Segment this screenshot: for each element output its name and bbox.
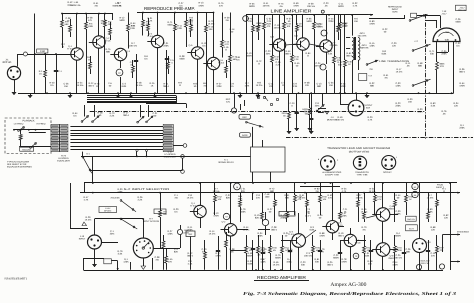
label K1 signal relay xyxy=(218,158,234,164)
svg-text:R-25: R-25 xyxy=(150,82,156,85)
switch S1 transfer xyxy=(82,152,92,174)
arrow sheet2 a xyxy=(421,192,460,194)
pot rec level xyxy=(170,225,191,249)
svg-text:3.3K: 3.3K xyxy=(328,53,333,56)
transistor Q11 xyxy=(221,221,237,237)
resistor R44 monitor xyxy=(302,93,312,130)
contact stubs on eq rail xyxy=(136,149,148,156)
resistor R1 1.5M box xyxy=(37,49,48,53)
transistor Q3 xyxy=(110,48,130,60)
svg-text:120K: 120K xyxy=(395,85,401,88)
box small bias xyxy=(411,13,417,17)
svg-text:XLR: XLR xyxy=(366,107,371,110)
transistor Q12 xyxy=(288,231,306,248)
svg-text:4.7K: 4.7K xyxy=(84,199,89,202)
svg-text:120K: 120K xyxy=(123,261,129,264)
resistor R-39 line-amp xyxy=(339,15,348,93)
svg-text:5600: 5600 xyxy=(167,24,173,27)
svg-text:360-4: 360-4 xyxy=(163,85,170,88)
svg-text:R-32: R-32 xyxy=(353,2,359,5)
svg-text:R-45: R-45 xyxy=(168,258,174,261)
box W-27 xyxy=(406,225,418,231)
svg-text:4%: 4% xyxy=(384,77,387,80)
extra record capacitor columns xyxy=(251,240,430,270)
resistor col 226 xyxy=(225,232,228,270)
svg-text:12K: 12K xyxy=(248,20,253,23)
svg-text:220K: 220K xyxy=(163,45,169,48)
resistor R-55 record xyxy=(257,235,266,270)
svg-text:R-10: R-10 xyxy=(255,214,261,217)
svg-text:S-2 INPUT SELECTOR: S-2 INPUT SELECTOR xyxy=(124,188,170,191)
svg-text:R-19: R-19 xyxy=(202,42,208,45)
capacitor mid2 xyxy=(304,93,313,133)
capacitor C5 xyxy=(165,50,175,93)
wires inside playback box xyxy=(13,127,51,149)
svg-text:L-84: L-84 xyxy=(74,1,79,4)
resistor R-62 record xyxy=(363,235,372,270)
svg-text:C-25: C-25 xyxy=(396,254,402,257)
record mid rails xyxy=(231,187,340,251)
svg-text:6.8K: 6.8K xyxy=(122,85,127,88)
wire line-amp couplings xyxy=(286,44,320,46)
svg-text:C-33: C-33 xyxy=(396,82,402,85)
svg-text:C-23: C-23 xyxy=(324,2,330,5)
svg-text:C-31: C-31 xyxy=(153,112,159,115)
wire record verticals xyxy=(201,183,451,270)
svg-text:600R: 600R xyxy=(246,55,252,58)
svg-text:C-15: C-15 xyxy=(275,24,281,27)
svg-text:4.7K: 4.7K xyxy=(117,4,122,7)
arrow lower right xyxy=(450,260,460,262)
svg-text:R-26: R-26 xyxy=(138,196,144,199)
svg-text:TYPE TI-88: TYPE TI-88 xyxy=(356,173,368,176)
wire line-amp emitters xyxy=(280,50,327,93)
resistor R-38 line-amp xyxy=(333,15,342,93)
svg-text:5600: 5600 xyxy=(119,19,125,22)
svg-text:R-47: R-47 xyxy=(84,196,90,199)
svg-text:10K: 10K xyxy=(286,25,290,28)
svg-text:LO FREQ: LO FREQ xyxy=(14,123,24,126)
svg-text:120K: 120K xyxy=(167,233,173,236)
svg-text:600R 5%: 600R 5% xyxy=(360,47,369,50)
svg-text:R-78: R-78 xyxy=(342,258,348,261)
resistor right of S2 xyxy=(162,235,165,270)
svg-text:600R: 600R xyxy=(333,257,339,260)
svg-text:1M 5%: 1M 5% xyxy=(273,27,280,30)
resistor R-52 record xyxy=(214,183,223,215)
svg-text:12K: 12K xyxy=(431,229,436,232)
resistor R-16 with wire xyxy=(229,13,238,94)
wire bottom-left hook xyxy=(84,258,119,270)
transistor Q14 xyxy=(340,234,361,246)
svg-text:82K: 82K xyxy=(241,190,246,193)
testpoint record 3 xyxy=(416,264,421,269)
svg-text:R-51: R-51 xyxy=(384,74,390,77)
testpoint circle 3 xyxy=(320,64,326,70)
svg-text:R-75: R-75 xyxy=(279,3,285,6)
svg-text:45T4: 45T4 xyxy=(362,44,368,47)
svg-text:600R: 600R xyxy=(249,5,255,8)
box BP-OSC xyxy=(99,207,117,213)
svg-text:SIGNAL RELAY: SIGNAL RELAY xyxy=(218,161,234,164)
svg-text:600R: 600R xyxy=(395,235,401,238)
box REC xyxy=(239,115,250,120)
svg-text:120K: 120K xyxy=(257,235,263,238)
svg-text:3.3K: 3.3K xyxy=(431,105,436,108)
box top right xyxy=(456,5,467,10)
svg-text:LINE AMPLIFIER: LINE AMPLIFIER xyxy=(271,9,312,14)
svg-text:R-25: R-25 xyxy=(328,261,334,264)
svg-text:R-40: R-40 xyxy=(347,61,353,64)
svg-text:27K: 27K xyxy=(168,261,173,264)
svg-text:120K: 120K xyxy=(216,85,222,88)
resistor R-15 with wire xyxy=(221,13,230,58)
svg-text:5600: 5600 xyxy=(306,20,312,23)
svg-text:47R: 47R xyxy=(440,65,444,68)
svg-text:12K: 12K xyxy=(392,45,397,48)
svg-text:R-24: R-24 xyxy=(78,82,84,85)
svg-text:43K: 43K xyxy=(108,23,112,26)
testpoint small circle line-amp xyxy=(243,16,249,22)
svg-text:33K: 33K xyxy=(209,28,213,31)
extra line-amp resistor columns xyxy=(257,15,340,40)
svg-text:W-27: W-27 xyxy=(409,227,415,230)
svg-text:360-4: 360-4 xyxy=(338,235,345,238)
svg-text:100K: 100K xyxy=(340,85,346,88)
svg-text:R-22: R-22 xyxy=(383,28,389,31)
jack J4 monitor xyxy=(318,109,338,122)
svg-text:600R: 600R xyxy=(275,257,281,260)
svg-text:R-72: R-72 xyxy=(257,60,263,63)
svg-text:SEE SHEET 5 FOR: SEE SHEET 5 FOR xyxy=(7,163,27,166)
svg-text:SOCKET: SOCKET xyxy=(383,171,392,174)
svg-text:MIC: MIC xyxy=(189,233,193,236)
svg-text:R-13: R-13 xyxy=(199,2,205,5)
svg-text:C-11: C-11 xyxy=(269,83,274,86)
svg-text:12.4 V: 12.4 V xyxy=(305,215,312,218)
svg-text:C-35: C-35 xyxy=(442,50,448,53)
svg-text:5600: 5600 xyxy=(455,21,461,24)
resistor col 205 xyxy=(204,240,207,270)
svg-text:-3dB: -3dB xyxy=(444,39,449,42)
svg-text:2.2K: 2.2K xyxy=(294,58,299,61)
svg-text:R-71: R-71 xyxy=(164,83,170,86)
svg-text:12K: 12K xyxy=(454,105,459,108)
svg-text:R-11: R-11 xyxy=(406,62,411,65)
label preamp mid row xyxy=(230,28,241,62)
resistor R-9 with wire xyxy=(142,13,151,36)
svg-text:R-44: R-44 xyxy=(244,226,250,229)
svg-text:R-45: R-45 xyxy=(295,62,301,65)
wire dashed vertical xyxy=(425,14,427,140)
svg-text:R-79: R-79 xyxy=(241,208,247,211)
wire harness bundle B xyxy=(70,127,163,150)
resistor R-12 with wire xyxy=(185,13,194,48)
svg-text:J-417: J-417 xyxy=(441,13,447,16)
switch J4 area xyxy=(316,93,324,112)
resistor R-33 line-amp xyxy=(283,15,292,93)
svg-text:R-49: R-49 xyxy=(338,116,344,119)
testpoint circle record top-left xyxy=(234,183,241,190)
transistor Q4 xyxy=(147,33,164,48)
wire rep cal drop xyxy=(241,100,245,110)
svg-text:360-4: 360-4 xyxy=(285,53,292,56)
wire right verticals xyxy=(437,42,454,94)
dashed box playback equalizer xyxy=(5,118,51,154)
svg-text:R-11: R-11 xyxy=(177,25,182,28)
svg-text:(BOTTOM VIEW): (BOTTOM VIEW) xyxy=(349,150,370,153)
svg-text:2.2K: 2.2K xyxy=(138,199,143,202)
svg-text:TI-4.5: TI-4.5 xyxy=(288,233,294,236)
svg-text:2.2K: 2.2K xyxy=(110,115,115,118)
svg-text:R-75: R-75 xyxy=(95,83,101,86)
svg-text:4.7K: 4.7K xyxy=(245,85,250,88)
resistor R-34 line-amp xyxy=(291,15,300,93)
wire line-amp top bus xyxy=(246,14,368,16)
svg-text:PLAYBACK: PLAYBACK xyxy=(23,119,35,122)
resistor R-57 record xyxy=(281,235,290,270)
resistor R-8 with wire xyxy=(127,13,136,49)
resistor R45 xyxy=(436,52,446,93)
socket diagram circle 3 xyxy=(382,156,397,170)
connector J1 rep head xyxy=(3,59,21,80)
svg-text:1K 5%: 1K 5% xyxy=(77,84,84,87)
svg-text:120K: 120K xyxy=(369,45,375,48)
svg-text:82K: 82K xyxy=(255,217,260,220)
svg-text:20%: 20% xyxy=(266,53,271,56)
transistor Q2 xyxy=(89,36,111,48)
svg-text:R-68: R-68 xyxy=(257,22,263,25)
svg-text:R-19: R-19 xyxy=(339,232,345,235)
svg-text:1K 2%: 1K 2% xyxy=(243,229,250,232)
label socket diagram xyxy=(327,147,390,154)
svg-text:C-26: C-26 xyxy=(276,61,282,64)
svg-text:2.2K: 2.2K xyxy=(267,20,272,23)
svg-text:1K 5%: 1K 5% xyxy=(427,197,434,200)
svg-text:33K: 33K xyxy=(315,261,320,264)
svg-text:6.8K: 6.8K xyxy=(382,53,387,56)
svg-text:R-46: R-46 xyxy=(274,261,280,264)
svg-text:1M 5%: 1M 5% xyxy=(212,190,219,193)
svg-text:R-74: R-74 xyxy=(248,18,254,21)
svg-text:C-28: C-28 xyxy=(272,226,278,229)
svg-text:R-71: R-71 xyxy=(430,50,436,53)
wire ground bus arrow xyxy=(449,92,454,94)
svg-text:HI-SPEED: HI-SPEED xyxy=(58,157,69,160)
transistor Q16 xyxy=(372,243,395,260)
svg-text:R-45: R-45 xyxy=(318,214,324,217)
svg-text:C-26: C-26 xyxy=(64,83,70,86)
note for notes see sheet 3 xyxy=(5,277,28,280)
svg-text:REPRODUCE: REPRODUCE xyxy=(388,6,403,9)
svg-text:1K 5%: 1K 5% xyxy=(85,219,92,222)
testpoint tiny top xyxy=(321,10,324,13)
svg-text:470R: 470R xyxy=(319,235,325,238)
svg-text:100K: 100K xyxy=(417,111,423,114)
svg-text:R-62: R-62 xyxy=(444,214,450,217)
svg-text:82K: 82K xyxy=(174,251,179,254)
switch contacts K1 upper xyxy=(256,93,279,106)
svg-text:R-60: R-60 xyxy=(370,20,376,23)
label socket 3 xyxy=(383,171,392,174)
label from sheet 2 xyxy=(436,184,445,189)
wire dashed rail right xyxy=(286,137,473,139)
svg-text:EXCEPT TI-88: EXCEPT TI-88 xyxy=(325,173,340,176)
svg-text:R-30: R-30 xyxy=(118,188,124,191)
svg-text:C-38: C-38 xyxy=(230,248,236,251)
connector J10 input xyxy=(79,235,102,249)
svg-text:45T4: 45T4 xyxy=(360,32,366,35)
svg-text:R-21: R-21 xyxy=(370,188,376,191)
svg-text:R-30: R-30 xyxy=(418,108,424,111)
switch input arm2 xyxy=(120,218,137,229)
resistor R-64 record xyxy=(394,235,403,270)
wire record bottom bus xyxy=(84,269,444,271)
svg-text:C-20: C-20 xyxy=(392,42,398,45)
wire input area xyxy=(70,183,168,248)
svg-text:100K: 100K xyxy=(100,22,106,25)
svg-text:3.3K: 3.3K xyxy=(118,253,123,256)
svg-text:R-68: R-68 xyxy=(320,232,326,235)
svg-text:33K: 33K xyxy=(301,264,306,267)
cap col 218 xyxy=(216,236,220,270)
svg-text:R-13: R-13 xyxy=(214,212,220,215)
svg-text:R-36: R-36 xyxy=(460,68,466,71)
svg-text:C-11: C-11 xyxy=(339,3,344,6)
svg-text:Ampex AG-300: Ampex AG-300 xyxy=(330,282,366,288)
wire vertical x35 xyxy=(34,14,36,94)
resistor R-40 line-amp xyxy=(344,15,353,93)
box 4.5uB xyxy=(279,212,295,217)
testpoint circle 2 xyxy=(321,30,327,36)
terminals from sheet2 xyxy=(412,183,418,197)
svg-text:C-26: C-26 xyxy=(456,18,462,21)
wire vertical x45 xyxy=(44,53,46,93)
svg-text:12K: 12K xyxy=(274,58,278,61)
label meter top xyxy=(441,10,447,16)
svg-text:R-27: R-27 xyxy=(357,194,363,197)
svg-text:R-71: R-71 xyxy=(168,21,174,24)
terminal block right (C-47 wafer) xyxy=(163,124,173,151)
svg-text:R-52: R-52 xyxy=(328,194,334,197)
relay K1 box xyxy=(251,147,286,172)
svg-text:TI-4.8: TI-4.8 xyxy=(355,242,361,245)
svg-text:500K 4%: 500K 4% xyxy=(72,4,81,7)
svg-text:2N1305: 2N1305 xyxy=(330,44,338,47)
arrow marker record left xyxy=(82,222,87,226)
svg-text:R-64: R-64 xyxy=(306,52,312,55)
svg-text:R-68: R-68 xyxy=(431,226,437,229)
svg-text:1K 2%: 1K 2% xyxy=(209,233,216,236)
svg-text:82K: 82K xyxy=(226,197,231,200)
svg-text:C-22: C-22 xyxy=(334,254,340,257)
svg-text:Fig. 7-3 Schematic Diagram: Fig. 7-3 Schematic Diagram, Record/Repro… xyxy=(243,291,457,296)
svg-text:12K: 12K xyxy=(444,217,449,220)
arrow erase bias xyxy=(443,231,470,253)
svg-text:R-20: R-20 xyxy=(368,116,374,119)
svg-text:C-18: C-18 xyxy=(230,28,236,31)
svg-text:R-12: R-12 xyxy=(338,61,344,64)
svg-text:C-20: C-20 xyxy=(290,102,296,105)
svg-text:TRANSISTOR LEAD AND SOCKET: TRANSISTOR LEAD AND SOCKET DIAGRAM xyxy=(327,147,390,150)
svg-text:REP: REP xyxy=(226,98,231,101)
svg-text:100K: 100K xyxy=(286,261,292,264)
transistor Q9 xyxy=(316,40,338,52)
svg-text:R-48: R-48 xyxy=(98,112,104,115)
svg-text:R-29: R-29 xyxy=(86,216,92,219)
svg-text:R-11: R-11 xyxy=(188,226,193,229)
svg-text:R-23: R-23 xyxy=(396,102,402,105)
svg-text:FOR NOTES SEE SHEET 3: FOR NOTES SEE SHEET 3 xyxy=(5,277,28,280)
svg-text:R-17: R-17 xyxy=(397,68,403,71)
label preamp top row xyxy=(72,1,122,25)
svg-text:4.7K: 4.7K xyxy=(131,25,136,28)
svg-text:R-34: R-34 xyxy=(258,232,264,235)
svg-text:C-14: C-14 xyxy=(393,261,399,264)
svg-text:100K: 100K xyxy=(240,211,246,214)
wire record rail 2 xyxy=(80,192,450,194)
wire meter feed xyxy=(369,15,441,28)
box mic xfer xyxy=(154,209,166,214)
svg-text:27K: 27K xyxy=(431,255,436,258)
meter pins xyxy=(425,21,456,41)
wire eq rail 1 xyxy=(81,156,251,158)
svg-text:R-42: R-42 xyxy=(68,1,74,4)
svg-text:1M 5%: 1M 5% xyxy=(355,197,362,200)
svg-text:R-10: R-10 xyxy=(247,52,253,55)
svg-text:C-30: C-30 xyxy=(396,210,402,213)
svg-text:470R: 470R xyxy=(198,4,204,7)
svg-text:360-4: 360-4 xyxy=(346,55,353,58)
svg-text:R-61: R-61 xyxy=(347,52,353,55)
svg-text:VU: VU xyxy=(445,31,449,34)
svg-text:R-32: R-32 xyxy=(274,56,280,59)
svg-text:20%: 20% xyxy=(110,233,115,236)
svg-text:R-32: R-32 xyxy=(370,82,376,85)
wire record couplers xyxy=(237,215,398,250)
resistor R-59 record xyxy=(312,235,321,270)
testpoint record 2 xyxy=(439,264,444,269)
resistor R-30 line-amp xyxy=(252,15,261,93)
svg-text:1K 5%: 1K 5% xyxy=(136,84,143,87)
svg-text:4.7K: 4.7K xyxy=(353,4,358,7)
wire J1 to preamp xyxy=(12,54,71,95)
svg-text:4.7K: 4.7K xyxy=(368,119,373,122)
svg-text:R-58: R-58 xyxy=(418,62,424,65)
svg-text:1K 5%: 1K 5% xyxy=(299,197,306,200)
svg-text:4%: 4% xyxy=(273,249,276,252)
switch S5 line termination xyxy=(412,40,430,51)
svg-text:1M 5%: 1M 5% xyxy=(314,65,321,68)
caption Fig 7-3 xyxy=(243,291,457,296)
svg-text:12K: 12K xyxy=(305,84,310,87)
svg-text:3.3K: 3.3K xyxy=(293,85,298,88)
svg-text:TYPICAL EQUALIZER: TYPICAL EQUALIZER xyxy=(7,161,29,164)
svg-text:4.7K: 4.7K xyxy=(377,198,382,201)
svg-text:ACCESS: ACCESS xyxy=(111,196,121,199)
label bias adj xyxy=(421,260,431,265)
svg-text:R-15: R-15 xyxy=(224,41,230,44)
svg-text:68K: 68K xyxy=(65,23,69,26)
svg-text:R-75: R-75 xyxy=(219,2,225,5)
svg-text:R-66: R-66 xyxy=(307,18,313,21)
switch access arm xyxy=(111,196,137,211)
rotary switch S2 xyxy=(133,238,153,258)
svg-text:600R: 600R xyxy=(338,5,344,8)
svg-text:C-13: C-13 xyxy=(317,83,323,86)
wire preamp emitters xyxy=(77,48,214,93)
svg-text:R-54: R-54 xyxy=(73,112,79,115)
